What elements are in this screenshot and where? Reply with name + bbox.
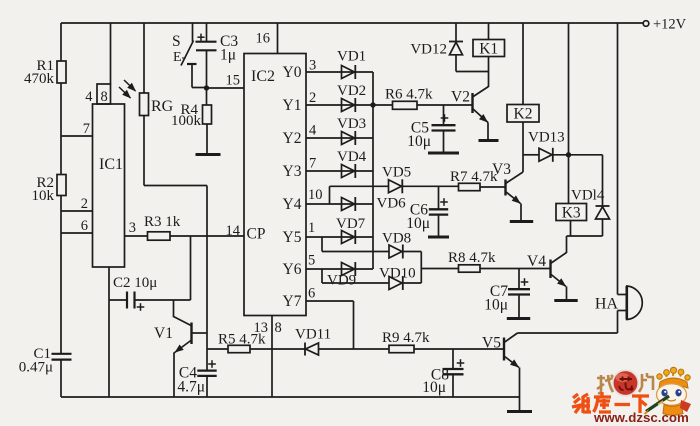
wire R9 to V5 base xyxy=(414,348,504,350)
svg-text:VD6: VD6 xyxy=(377,196,407,212)
capacitor C3 xyxy=(196,23,239,88)
svg-text:S: S xyxy=(172,33,181,50)
capacitor C7 xyxy=(484,269,530,318)
svg-text:1μ: 1μ xyxy=(220,47,236,64)
svg-text:VD4: VD4 xyxy=(337,149,367,165)
svg-text:Y7: Y7 xyxy=(283,293,302,310)
ground below C6 xyxy=(428,236,449,239)
wire left rail mid segment xyxy=(60,83,62,175)
svg-text:8: 8 xyxy=(101,89,108,105)
svg-text:VD7: VD7 xyxy=(336,216,366,232)
node bus to R6 junction xyxy=(370,102,375,107)
capacitor C6 xyxy=(406,186,448,236)
svg-text:IC2: IC2 xyxy=(251,68,275,85)
resistor R2 xyxy=(32,175,67,205)
capacitor C5 xyxy=(407,105,455,152)
wire VD8/VD10 connector xyxy=(420,252,422,284)
svg-text:3: 3 xyxy=(309,58,316,74)
capacitor C2 xyxy=(109,275,157,311)
wire V1 base column xyxy=(206,186,208,371)
wire left rail bottom segment xyxy=(60,360,62,397)
wire R5 to VD11 xyxy=(250,348,305,350)
op-amp IC1 xyxy=(93,104,125,267)
svg-text:CP: CP xyxy=(247,226,266,243)
diode VD3 xyxy=(337,116,366,145)
diode VD5 xyxy=(382,165,411,194)
wire Y4 line xyxy=(306,187,373,204)
wire V3 collector to VD13 xyxy=(523,154,539,156)
node switch/C3/R4/pin15 junction xyxy=(204,85,209,90)
svg-text:0.47μ: 0.47μ xyxy=(19,360,53,376)
wire left rail lower segment xyxy=(60,196,62,354)
wire Y3 line xyxy=(306,156,373,172)
wire pin15 line xyxy=(207,73,245,89)
svg-text:2: 2 xyxy=(81,196,88,212)
wire VD13 to VD14 column xyxy=(553,154,603,156)
svg-text:K1: K1 xyxy=(479,41,498,58)
svg-text:C2 10μ: C2 10μ xyxy=(113,275,157,291)
svg-text:VD2: VD2 xyxy=(337,83,366,99)
switch S blade xyxy=(181,41,194,66)
svg-text:R3 1k: R3 1k xyxy=(144,214,181,230)
wire IC1 bottom lead to ground rail xyxy=(108,267,110,397)
wire V5 collector line to speaker xyxy=(518,311,627,334)
svg-text:VD13: VD13 xyxy=(528,130,565,146)
capacitor C1 xyxy=(19,346,72,376)
wire VD11 to R9 xyxy=(319,348,390,350)
wire +12V drop to K3 xyxy=(568,23,570,204)
resistor R9 xyxy=(382,330,430,353)
ground below V3 emitter xyxy=(510,220,533,223)
transistor V2 xyxy=(451,87,488,140)
wire IC2 pin16 supply lead xyxy=(277,23,279,54)
wire R7 to V3 base xyxy=(480,186,506,188)
svg-text:VD8: VD8 xyxy=(382,231,411,247)
ground below C5 xyxy=(428,152,459,155)
svg-text:+12V: +12V xyxy=(653,17,687,33)
transistor V1 xyxy=(154,300,207,397)
svg-text:www.dzsc.com: www.dzsc.com xyxy=(593,410,689,425)
wire K2 to V3 collector xyxy=(522,122,524,172)
wire RG bottom lead and elbow to V1 base column xyxy=(144,116,207,186)
svg-text:VD1: VD1 xyxy=(337,49,366,65)
svg-text:4.7μ: 4.7μ xyxy=(177,379,205,396)
svg-text:100k: 100k xyxy=(171,113,202,129)
wire +12V top supply rail xyxy=(61,22,646,24)
switch S upper contact xyxy=(172,23,193,65)
svg-text:IC1: IC1 xyxy=(99,156,123,173)
decoder IC2 xyxy=(226,31,307,337)
wire C2 right lead / V1 collector node xyxy=(135,299,191,301)
relay K2 xyxy=(507,23,539,123)
transistor V3 xyxy=(492,161,523,220)
wire R4 to ground xyxy=(206,124,208,153)
wire Y2 line xyxy=(306,123,373,139)
svg-text:VD12: VD12 xyxy=(410,42,447,58)
svg-text:V3: V3 xyxy=(492,161,511,178)
resistor R3 xyxy=(144,214,181,240)
svg-text:HA: HA xyxy=(595,296,619,313)
svg-text:V5: V5 xyxy=(482,335,501,352)
svg-text:16: 16 xyxy=(256,31,271,47)
ground below V2 emitter xyxy=(479,139,499,142)
ground below C7 xyxy=(507,317,530,320)
svg-text:6: 6 xyxy=(308,286,315,302)
svg-text:10: 10 xyxy=(308,187,323,203)
svg-text:10μ: 10μ xyxy=(407,133,431,150)
capacitor C8 xyxy=(422,349,464,397)
svg-text:VD10: VD10 xyxy=(379,266,416,282)
IC2 Y pin labels xyxy=(283,64,302,310)
resistor R8 xyxy=(448,250,496,272)
svg-text:R7 4.7k: R7 4.7k xyxy=(450,169,498,185)
svg-text:1: 1 xyxy=(308,220,315,236)
relay K1 xyxy=(473,23,505,58)
speaker HA xyxy=(595,286,642,320)
diode VD11 xyxy=(295,327,331,356)
relay K3 xyxy=(556,204,587,222)
diode VD7 xyxy=(336,216,366,244)
svg-text:3: 3 xyxy=(129,220,136,236)
diode VD6 xyxy=(342,196,407,212)
ground below V5 emitter xyxy=(507,410,532,413)
wire junction to R4 xyxy=(206,88,208,105)
diode VD1 xyxy=(337,49,366,80)
wire Y6 riser to VD10 line xyxy=(322,269,389,283)
wire IC1 pin2 line xyxy=(61,196,93,212)
svg-text:VD3: VD3 xyxy=(337,116,366,132)
svg-text:Y5: Y5 xyxy=(283,229,302,246)
wire diode summing bus xyxy=(372,72,374,269)
resistor R1 xyxy=(24,58,66,87)
svg-text:V1: V1 xyxy=(154,325,173,342)
wire R6 to V2 base xyxy=(417,104,473,106)
svg-text:4: 4 xyxy=(309,123,317,139)
svg-text:7: 7 xyxy=(309,156,316,172)
diode VD10 xyxy=(379,266,416,291)
svg-text:R6 4.7k: R6 4.7k xyxy=(385,87,433,103)
svg-text:Y6: Y6 xyxy=(283,261,302,278)
pin 4|8 stub box on IC1 xyxy=(85,84,110,105)
diode VD8 xyxy=(382,231,411,259)
diode VD12 xyxy=(410,23,463,72)
resistor R5 xyxy=(218,332,266,353)
svg-text:8: 8 xyxy=(275,320,282,336)
svg-text:K2: K2 xyxy=(514,106,533,123)
svg-text:VD11: VD11 xyxy=(295,327,331,343)
svg-text:VD9: VD9 xyxy=(327,273,356,289)
ground below R4 xyxy=(196,153,221,156)
svg-text:10k: 10k xyxy=(32,188,55,204)
wire VD12/K1 bottom connector xyxy=(456,71,489,73)
node +12V terminal xyxy=(643,17,686,33)
wire Y6 line xyxy=(306,253,373,270)
wire CP line down to C2 node xyxy=(190,236,192,300)
capacitor C4 xyxy=(177,360,216,397)
svg-text:15: 15 xyxy=(226,73,241,89)
wire IC1 pin3 to R3 xyxy=(125,220,148,236)
wire Y4 riser to VD5 line xyxy=(330,186,389,204)
photoresistor RG xyxy=(119,80,174,116)
diode VD14 xyxy=(571,155,610,236)
svg-text:V4: V4 xyxy=(527,253,546,270)
wire VD8 to connector xyxy=(403,251,421,253)
ground below V4 emitter xyxy=(554,299,577,302)
resistor R7 xyxy=(450,169,498,191)
wire R8 to V4 base xyxy=(480,268,551,270)
wire IC2 pin13/8 ground lead xyxy=(271,316,273,398)
svg-text:4: 4 xyxy=(85,89,93,105)
wire IC1 pin8 supply drop xyxy=(110,23,112,84)
svg-text:VD5: VD5 xyxy=(382,165,411,181)
svg-text:K3: K3 xyxy=(562,205,581,222)
wire K3/VD14 bottom connector xyxy=(567,235,603,237)
wire RG top lead xyxy=(143,23,145,93)
wire K3 bottom lead xyxy=(570,221,572,237)
svg-text:Y3: Y3 xyxy=(283,163,302,180)
switch S lower contact xyxy=(187,64,207,88)
svg-text:Y4: Y4 xyxy=(283,196,302,213)
svg-text:2: 2 xyxy=(309,90,316,106)
svg-text:10μ: 10μ xyxy=(406,215,430,232)
wire Y1 line xyxy=(306,90,373,106)
wire Y5 riser to VD8 line xyxy=(322,237,389,252)
diode VD13 xyxy=(528,130,565,162)
transistor V4 xyxy=(527,236,566,300)
svg-text:V2: V2 xyxy=(451,89,470,106)
wire Y5 line xyxy=(306,220,373,237)
wire V2 collector lead xyxy=(488,57,490,88)
wire bottom ground rail xyxy=(61,396,520,398)
resistor R4 xyxy=(171,102,212,129)
wire +12V drop to speaker xyxy=(618,23,627,295)
resistor R6 xyxy=(373,87,433,110)
wire Y0 line xyxy=(306,58,373,74)
svg-text:10μ: 10μ xyxy=(484,297,508,314)
svg-text:Y0: Y0 xyxy=(283,64,302,81)
diode VD2 xyxy=(337,83,366,112)
diode VD4 xyxy=(337,149,367,178)
wire VD10 to connector xyxy=(403,282,421,284)
svg-text:7: 7 xyxy=(83,121,90,137)
svg-text:Y2: Y2 xyxy=(283,130,302,147)
wire V1 base column to R5 xyxy=(207,348,228,350)
transistor V5 xyxy=(482,333,519,411)
wire IC1 pin6 line xyxy=(61,218,93,234)
svg-text:R9 4.7k: R9 4.7k xyxy=(382,330,430,346)
svg-text:Y1: Y1 xyxy=(283,97,302,114)
wire VD5 to R7 xyxy=(403,185,459,187)
wire Y7 line xyxy=(306,286,354,350)
svg-text:5: 5 xyxy=(308,253,315,269)
svg-text:R8 4.7k: R8 4.7k xyxy=(448,250,496,266)
svg-text:10μ: 10μ xyxy=(422,379,446,396)
wire left rail upper segment xyxy=(60,23,62,61)
node VD13 output junction xyxy=(566,152,571,157)
wire R3 to IC2 CP pin14 xyxy=(170,235,244,237)
svg-text:6: 6 xyxy=(81,218,88,234)
watermark logo xyxy=(572,367,691,425)
wire connector to R8 xyxy=(421,268,458,270)
wire IC1 pin7 line xyxy=(61,121,93,137)
diode VD9 xyxy=(327,262,356,289)
svg-text:VDl4: VDl4 xyxy=(571,188,605,204)
svg-text:R5 4.7k: R5 4.7k xyxy=(218,332,266,348)
svg-text:470k: 470k xyxy=(24,71,55,87)
